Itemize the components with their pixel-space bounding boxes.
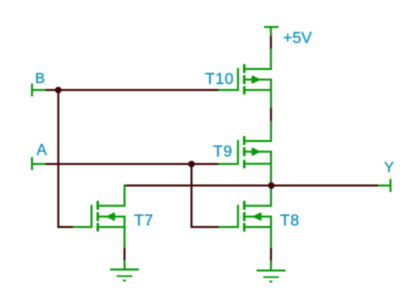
svg-text:B: B (35, 70, 45, 87)
svg-text:Y: Y (384, 159, 394, 176)
svg-text:T7: T7 (134, 213, 154, 230)
svg-text:T9: T9 (213, 144, 233, 161)
svg-text:A: A (37, 142, 48, 159)
svg-text:T10: T10 (205, 71, 234, 88)
svg-text:+5V: +5V (283, 30, 312, 47)
svg-text:T8: T8 (280, 213, 300, 230)
